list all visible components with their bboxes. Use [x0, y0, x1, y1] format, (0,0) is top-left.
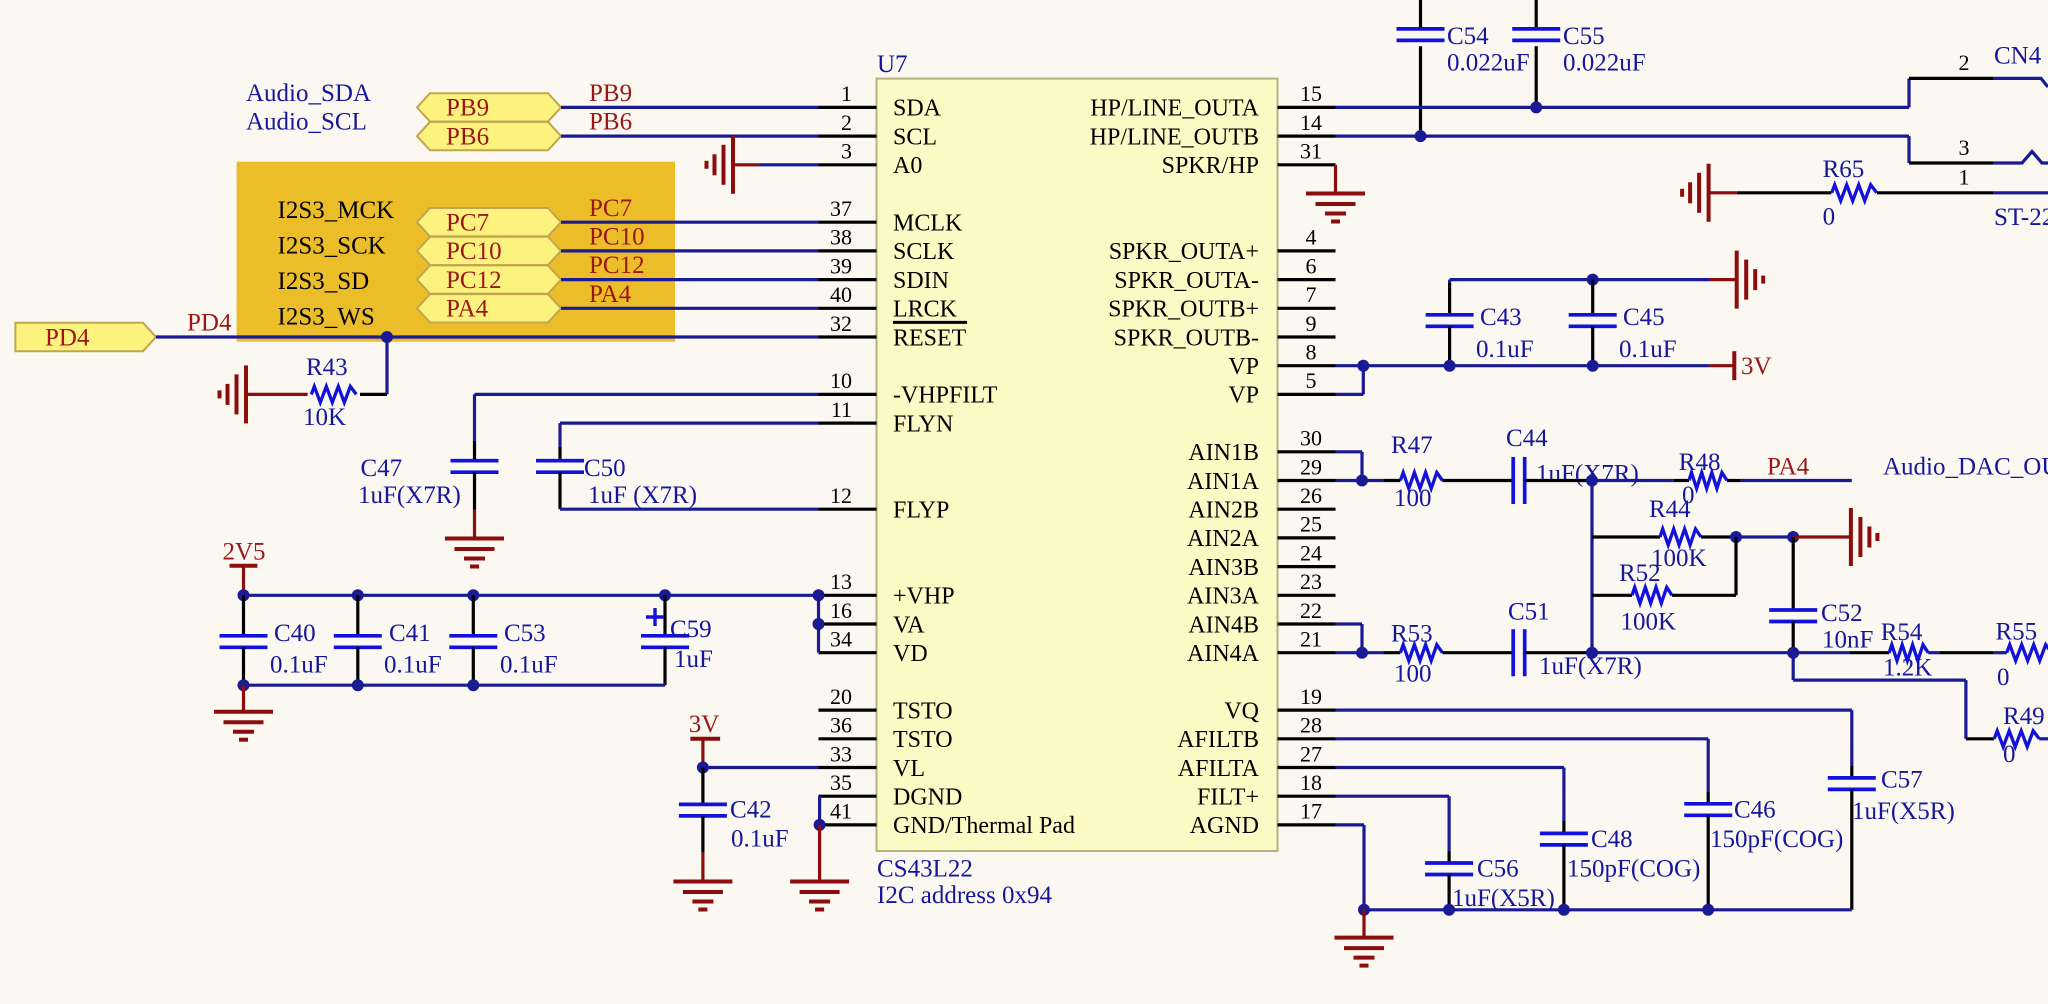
connector CN4 pin 1	[1877, 191, 1993, 194]
port PB6	[417, 122, 561, 150]
junction pin 41	[814, 819, 826, 831]
pin 35 (DGND)	[819, 795, 877, 798]
svg-text:RESET: RESET	[893, 325, 967, 351]
svg-text:FLYP: FLYP	[893, 498, 949, 524]
junction C53 bottom	[467, 679, 479, 691]
svg-text:TSTO: TSTO	[893, 698, 953, 724]
pin 10 (-VHPFILT)	[819, 393, 877, 396]
junction C59 top	[659, 589, 671, 601]
svg-text:SPKR_OUTA+: SPKR_OUTA+	[1109, 239, 1259, 265]
svg-text:AIN4B: AIN4B	[1188, 612, 1259, 638]
svg-text:0.1uF: 0.1uF	[1619, 336, 1677, 363]
junction C45 bottom	[1587, 360, 1599, 372]
pin 41 (GND/Thermal Pad)	[819, 823, 877, 826]
svg-text:SPKR_OUTB-: SPKR_OUTB-	[1114, 325, 1259, 351]
svg-text:1uF: 1uF	[674, 646, 713, 673]
pin 36 (TSTO)	[819, 737, 877, 740]
wire pin 28 AFILTB to C46	[1336, 737, 1709, 740]
ground at pin 31 SPKR/HP	[1334, 165, 1337, 194]
junction AIN4	[1356, 647, 1368, 659]
wire PC10 to pin	[561, 249, 819, 252]
svg-text:VA: VA	[893, 612, 925, 638]
svg-text:13: 13	[830, 569, 852, 594]
capacitor C45 0.1uF	[1591, 280, 1594, 315]
svg-text:FLYN: FLYN	[893, 411, 953, 437]
svg-text:15: 15	[1300, 81, 1322, 106]
svg-text:14: 14	[1300, 110, 1322, 135]
pin 3 (A0)	[819, 163, 877, 166]
junction C55 on OUTA net	[1530, 101, 1542, 113]
svg-text:0: 0	[1997, 664, 2010, 691]
capacitor C59 1uF polarized	[663, 595, 666, 636]
wire VP to pin 5	[1362, 366, 1365, 395]
junction C44/R48/R44 node	[1586, 475, 1598, 487]
port PD4	[15, 323, 156, 351]
svg-text:AIN3A: AIN3A	[1187, 584, 1260, 610]
svg-text:PD4: PD4	[45, 324, 90, 351]
pin 7 (SPKR_OUTB+)	[1278, 307, 1336, 310]
capacitor C53 0.1uF	[472, 595, 475, 636]
svg-text:0.1uF: 0.1uF	[1476, 336, 1534, 363]
wire pin 14 HP/LINE_OUTB to CN4	[1336, 135, 1910, 138]
svg-text:AIN3B: AIN3B	[1188, 555, 1259, 581]
wire pin 18 FILT+ to C56	[1336, 795, 1450, 798]
capacitor C57 1uF(X5R)	[1850, 766, 1853, 778]
pin 31 (SPKR/HP)	[1278, 163, 1336, 166]
svg-text:PC12: PC12	[446, 267, 502, 294]
svg-text:C48: C48	[1591, 826, 1633, 853]
pin 14 (HP/LINE_OUTB)	[1278, 135, 1336, 138]
svg-text:12: 12	[830, 483, 852, 508]
svg-text:R53: R53	[1391, 620, 1433, 647]
svg-text:I2S3_WS: I2S3_WS	[278, 304, 375, 331]
pin 26 (AIN2B)	[1278, 508, 1336, 511]
wire PC7 to pin	[561, 221, 819, 224]
wire PC12 to pin	[561, 278, 819, 281]
I2S3 highlight box	[237, 162, 675, 342]
junction VA	[813, 618, 825, 630]
resistor R47 100	[1400, 473, 1442, 489]
capacitor C41 0.1uF	[356, 595, 359, 636]
capacitor C54 0.022uF	[1419, 0, 1422, 27]
wire pin 29 AIN1A	[1336, 479, 1384, 482]
pin 16 (VA)	[819, 622, 877, 625]
svg-text:C47: C47	[361, 455, 403, 482]
capacitor C44 1uF(X7R)	[1511, 457, 1515, 504]
capacitor C51 1uF(X7R)	[1511, 629, 1515, 676]
junction C46/bus	[1702, 904, 1714, 916]
pin 20 (TSTO)	[819, 708, 877, 711]
pin 18 (FILT+)	[1278, 795, 1336, 798]
svg-text:33: 33	[830, 741, 852, 766]
svg-text:AIN1B: AIN1B	[1188, 440, 1259, 466]
svg-text:VL: VL	[893, 756, 925, 782]
svg-text:35: 35	[830, 770, 852, 795]
svg-text:AIN2A: AIN2A	[1187, 526, 1260, 552]
wire pin 27 AFILTA to C48	[1336, 766, 1564, 769]
svg-text:R44: R44	[1649, 496, 1691, 523]
svg-text:10: 10	[830, 368, 852, 393]
svg-text:1: 1	[1959, 165, 1970, 190]
resistor R55 0	[2007, 645, 2048, 661]
wire 2V5 rail to pin 13 +VHP	[244, 594, 819, 597]
IC U7 CS43L22 body	[877, 79, 1278, 851]
wire node to R48	[1592, 479, 1674, 482]
CN4 jack contact pin 1	[1993, 191, 2048, 194]
svg-text:C54: C54	[1447, 23, 1489, 50]
junction C41 top	[352, 589, 364, 601]
pin 9 (SPKR_OUTB-)	[1278, 335, 1336, 338]
svg-text:0.022uF: 0.022uF	[1447, 50, 1530, 77]
svg-text:C55: C55	[1563, 23, 1605, 50]
svg-text:36: 36	[830, 713, 852, 738]
svg-text:32: 32	[830, 311, 852, 336]
pin 33 (VL)	[819, 766, 877, 769]
svg-text:100K: 100K	[1621, 608, 1677, 635]
wire pin 22 AIN4B down	[1336, 622, 1363, 625]
wire junction down to R43	[385, 337, 388, 394]
svg-text:I2S3_SCK: I2S3_SCK	[278, 233, 386, 260]
wire pin 30 AIN1B down	[1336, 450, 1363, 453]
pin 6 (SPKR_OUTA-)	[1278, 278, 1336, 281]
svg-text:28: 28	[1300, 713, 1322, 738]
svg-text:39: 39	[830, 253, 852, 278]
junction VP pins tie	[1357, 360, 1369, 372]
svg-text:37: 37	[830, 196, 852, 221]
svg-text:+VHP: +VHP	[893, 584, 955, 610]
capacitor C52 10nF	[1792, 537, 1795, 610]
pin 37 (MCLK)	[819, 221, 877, 224]
port PB9	[417, 93, 561, 121]
wire PA4 to pin	[561, 307, 819, 310]
svg-text:A0: A0	[893, 153, 922, 179]
pin 23 (AIN3A)	[1278, 594, 1336, 597]
svg-text:C50: C50	[584, 455, 626, 482]
svg-text:HP/LINE_OUTB: HP/LINE_OUTB	[1090, 124, 1259, 150]
pin 12 (FLYP)	[819, 508, 877, 511]
svg-text:38: 38	[830, 225, 852, 250]
svg-text:3V: 3V	[689, 711, 720, 738]
svg-text:PC10: PC10	[446, 238, 502, 265]
svg-text:LRCK: LRCK	[893, 297, 958, 323]
svg-text:SDA: SDA	[893, 96, 942, 122]
svg-text:CS43L22: CS43L22	[877, 856, 973, 883]
junction C41 bottom	[352, 679, 364, 691]
pin 27 (AFILTA)	[1278, 766, 1336, 769]
svg-text:3V: 3V	[1741, 353, 1772, 380]
svg-text:1uF(X5R): 1uF(X5R)	[1852, 798, 1955, 825]
svg-text:16: 16	[830, 598, 852, 623]
svg-text:PD4: PD4	[187, 309, 232, 336]
pin 25 (AIN2A)	[1278, 536, 1336, 539]
svg-text:150pF(COG): 150pF(COG)	[1710, 826, 1843, 853]
svg-text:DGND: DGND	[893, 785, 962, 811]
svg-text:Audio_SDA: Audio_SDA	[246, 80, 371, 107]
wire pin 17 AGND down	[1336, 823, 1365, 826]
port PA4	[417, 294, 561, 322]
wire bottom bus	[1364, 908, 1852, 911]
junction R44/R52	[1730, 531, 1742, 543]
svg-text:R52: R52	[1619, 560, 1661, 587]
svg-text:Audio_DAC_OUT: Audio_DAC_OUT	[1883, 453, 2048, 480]
pin 29 (AIN1A)	[1278, 479, 1336, 482]
ground at C42	[701, 853, 704, 882]
ground at R65	[1707, 164, 1711, 222]
svg-text:0.1uF: 0.1uF	[500, 652, 558, 679]
ground at pin 41	[818, 825, 821, 882]
pin 32 (RESET)	[819, 335, 877, 338]
svg-text:C45: C45	[1623, 304, 1665, 331]
junction C45 top	[1587, 274, 1599, 286]
connector CN4 pin 2	[1909, 77, 1993, 80]
wire R54 to R55	[1928, 651, 1940, 654]
resistor R48 0	[1689, 473, 1727, 489]
svg-text:0.1uF: 0.1uF	[270, 652, 328, 679]
svg-text:SCLK: SCLK	[893, 239, 955, 265]
svg-text:1uF (X7R): 1uF (X7R)	[588, 482, 697, 509]
svg-text:AIN2B: AIN2B	[1188, 498, 1259, 524]
svg-text:11: 11	[831, 397, 852, 422]
svg-text:PB9: PB9	[446, 95, 489, 122]
port PC12	[417, 265, 561, 293]
resistor R49 0	[1994, 731, 2039, 747]
junction C54 on OUTB net	[1415, 130, 1427, 142]
capacitor C48 150pF(COG)	[1562, 821, 1565, 833]
pin 21 (AIN4A)	[1278, 651, 1336, 654]
svg-text:SPKR/HP: SPKR/HP	[1162, 153, 1259, 179]
wire pin 35 DGND to pin 41 tie	[818, 796, 821, 825]
junction C56/bus	[1443, 904, 1455, 916]
wire R48 to PA4	[1727, 479, 1741, 482]
svg-text:R55: R55	[1996, 619, 2038, 646]
svg-text:R43: R43	[306, 354, 348, 381]
wire 3V to pin 33 VL	[703, 766, 819, 769]
svg-text:PA4: PA4	[446, 296, 489, 323]
svg-text:0.1uF: 0.1uF	[384, 652, 442, 679]
resistor R65 0	[1832, 185, 1877, 201]
power port 3V (VP)	[1709, 364, 1734, 367]
svg-text:0: 0	[2003, 741, 2016, 768]
svg-text:-VHPFILT: -VHPFILT	[893, 383, 998, 409]
svg-text:8: 8	[1306, 340, 1317, 365]
resistor R54 1.2K	[1889, 645, 1928, 661]
pin 39 (SDIN)	[819, 278, 877, 281]
ground at R43	[244, 365, 248, 423]
svg-text:SDIN: SDIN	[893, 268, 949, 294]
svg-text:Audio_SCL: Audio_SCL	[246, 109, 367, 136]
svg-text:150pF(COG): 150pF(COG)	[1567, 856, 1700, 883]
svg-text:VP: VP	[1228, 383, 1259, 409]
svg-text:23: 23	[1300, 569, 1322, 594]
svg-text:20: 20	[830, 684, 852, 709]
capacitor C42 0.1uF	[701, 768, 704, 805]
capacitor C43 0.1uF	[1448, 283, 1451, 315]
svg-text:PB6: PB6	[446, 123, 489, 150]
connector CN4 pin 3	[1909, 161, 1993, 164]
svg-text:VQ: VQ	[1224, 698, 1259, 724]
svg-text:I2S3_SD: I2S3_SD	[278, 268, 370, 295]
junction AIN1	[1356, 475, 1368, 487]
svg-text:1: 1	[841, 81, 852, 106]
wire pin 10 -VHPFILT to C47	[475, 393, 819, 396]
svg-text:1uF(X7R): 1uF(X7R)	[358, 482, 461, 509]
wire pin 21 AIN4A	[1336, 651, 1384, 654]
svg-text:MCLK: MCLK	[893, 211, 963, 237]
resistor R43	[360, 393, 387, 396]
svg-text:34: 34	[830, 627, 852, 652]
svg-text:CN4: CN4	[1994, 42, 2042, 69]
junction 2V5/C40	[238, 589, 250, 601]
junction C40 bottom	[238, 679, 250, 691]
svg-text:R54: R54	[1881, 619, 1923, 646]
pin 34 (VD)	[819, 651, 877, 654]
svg-text:41: 41	[830, 799, 852, 824]
svg-text:0.1uF: 0.1uF	[731, 825, 789, 852]
ground at A0	[731, 136, 735, 194]
port PC7	[417, 208, 561, 236]
svg-text:PA4: PA4	[1767, 453, 1810, 480]
lead to R49	[1966, 737, 1994, 740]
svg-text:PA4: PA4	[589, 281, 632, 308]
pin 5 (VP)	[1278, 393, 1336, 396]
svg-text:VD: VD	[893, 641, 928, 667]
svg-text:PB6: PB6	[589, 109, 632, 136]
svg-text:HP/LINE_OUTA: HP/LINE_OUTA	[1090, 96, 1259, 122]
svg-text:4: 4	[1306, 225, 1317, 250]
svg-text:3: 3	[1959, 135, 1970, 160]
junction C51/R54 node	[1586, 647, 1598, 659]
wire C51 node to C52/R54	[1592, 651, 1850, 654]
pin 8 (VP)	[1278, 364, 1336, 367]
svg-text:18: 18	[1300, 770, 1322, 795]
svg-text:C56: C56	[1477, 856, 1519, 883]
svg-text:U7: U7	[877, 51, 908, 78]
capacitor C40 0.1uF	[242, 595, 245, 636]
svg-text:SPKR_OUTB+: SPKR_OUTB+	[1108, 297, 1259, 323]
svg-text:SCL: SCL	[893, 124, 937, 150]
wire C40..C59 bottom bus	[244, 684, 666, 687]
svg-text:C51: C51	[1508, 598, 1550, 625]
svg-text:GND/Thermal Pad: GND/Thermal Pad	[893, 813, 1075, 839]
ground at C40 bus	[242, 685, 245, 712]
wire PB9 to pin 1	[561, 106, 819, 109]
svg-text:C43: C43	[1480, 304, 1522, 331]
svg-text:I2S3_MCK: I2S3_MCK	[278, 197, 395, 224]
svg-text:10nF: 10nF	[1822, 627, 1873, 654]
junction +VHP/VA vertical	[813, 589, 825, 601]
svg-text:100: 100	[1394, 485, 1432, 512]
pin 19 (VQ)	[1278, 708, 1336, 711]
svg-text:9: 9	[1306, 311, 1317, 336]
pin 2 (SCL)	[819, 135, 877, 138]
wire PD4 to pin 32 RESET	[156, 335, 819, 338]
svg-text:R49: R49	[2003, 703, 2045, 730]
svg-text:VP: VP	[1228, 354, 1259, 380]
svg-text:2V5: 2V5	[223, 538, 266, 565]
svg-text:AIN4A: AIN4A	[1187, 641, 1260, 667]
svg-text:1.2K: 1.2K	[1883, 655, 1932, 682]
CN4 jack contact pin 3	[1993, 152, 2048, 164]
ground at C43/C45 net	[1709, 278, 1737, 281]
svg-text:10K: 10K	[303, 404, 346, 431]
junction AGND/bus	[1358, 904, 1370, 916]
wire PB6 to pin 2	[561, 135, 819, 138]
ground at AGND bus	[1362, 910, 1365, 938]
svg-text:ST-2238: ST-2238	[1994, 204, 2048, 231]
svg-text:C40: C40	[274, 620, 316, 647]
pin 38 (SCLK)	[819, 249, 877, 252]
svg-text:C46: C46	[1734, 796, 1776, 823]
resistor R52 100K	[1592, 594, 1632, 597]
wire node down to R44/R52	[1590, 481, 1593, 653]
capacitor C46 150pF(COG)	[1707, 792, 1710, 804]
pin 40 (LRCK)	[819, 307, 877, 310]
svg-text:3: 3	[841, 139, 852, 164]
svg-text:C57: C57	[1881, 767, 1923, 794]
RESET overbar	[893, 321, 967, 324]
capacitor C56 1uF(X5R)	[1447, 851, 1450, 863]
svg-text:AGND: AGND	[1190, 813, 1259, 839]
svg-text:30: 30	[1300, 426, 1322, 451]
svg-text:R47: R47	[1391, 432, 1433, 459]
capacitor C55 0.022uF	[1535, 0, 1538, 27]
junction C52 bottom	[1787, 647, 1799, 659]
svg-text:21: 21	[1300, 627, 1322, 652]
svg-text:SPKR_OUTA-: SPKR_OUTA-	[1114, 268, 1259, 294]
svg-text:40: 40	[830, 282, 852, 307]
wire pin 19 VQ to C57	[1336, 708, 1852, 711]
svg-text:31: 31	[1300, 139, 1322, 164]
svg-text:0.022uF: 0.022uF	[1563, 50, 1646, 77]
svg-text:17: 17	[1300, 799, 1322, 824]
svg-text:29: 29	[1300, 454, 1322, 479]
svg-text:TSTO: TSTO	[893, 727, 953, 753]
svg-text:7: 7	[1306, 282, 1317, 307]
wire pin 8 VP	[1336, 364, 1710, 367]
junction C48/bus	[1558, 904, 1570, 916]
wire C50 to pin 12 FLYP	[560, 508, 819, 511]
junction PD4/R43	[381, 331, 393, 343]
svg-text:6: 6	[1306, 253, 1317, 278]
pin 11 (FLYN)	[819, 422, 877, 425]
svg-text:2: 2	[1959, 50, 1970, 75]
wire VA VD tie	[817, 595, 820, 652]
svg-text:PC10: PC10	[589, 224, 645, 251]
wire pin 15 HP/LINE_OUTA to CN4	[1336, 106, 1910, 109]
pin 28 (AFILTB)	[1278, 737, 1336, 740]
svg-text:5: 5	[1306, 368, 1317, 393]
port PC10	[417, 237, 561, 265]
pin 17 (AGND)	[1278, 823, 1336, 826]
wire pin 11 FLYN to C50	[560, 422, 819, 425]
pin 24 (AIN3B)	[1278, 565, 1336, 568]
svg-text:C44: C44	[1506, 425, 1548, 452]
pin 15 (HP/LINE_OUTA)	[1278, 106, 1336, 109]
junction C53 top	[467, 589, 479, 601]
svg-text:R65: R65	[1823, 156, 1865, 183]
svg-text:PC7: PC7	[446, 210, 489, 237]
svg-text:C42: C42	[730, 797, 772, 824]
resistor R44 100K	[1592, 535, 1660, 538]
wire R44 node to ground stub	[1736, 535, 1793, 538]
svg-text:C53: C53	[504, 620, 546, 647]
svg-text:C59: C59	[670, 616, 712, 643]
svg-text:2: 2	[841, 110, 852, 135]
svg-text:PC7: PC7	[589, 195, 632, 222]
junction C52 top	[1787, 531, 1799, 543]
pin 13 (+VHP)	[819, 594, 877, 597]
svg-text:C52: C52	[1821, 600, 1863, 627]
